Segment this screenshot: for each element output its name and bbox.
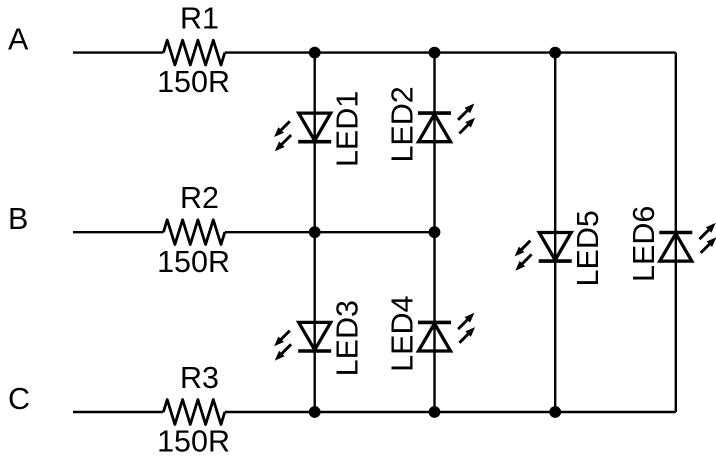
wire net C: R3 to right corner (225, 411, 676, 413)
svg-text:C: C (8, 382, 30, 416)
junction dot B/col2 (429, 226, 441, 238)
wire net A: R1 to right corner (225, 51, 676, 53)
svg-text:LED5: LED5 (571, 210, 605, 286)
LED LED6 symbol (light-emitting diode, pointing up) (659, 223, 716, 261)
svg-text:R2: R2 (180, 181, 219, 215)
svg-text:LED1: LED1 (331, 91, 365, 167)
svg-text:LED3: LED3 (331, 300, 365, 376)
resistor R3 (163, 400, 224, 425)
wire vertical column 3 (LED5) (554, 53, 556, 412)
junction dot C/col2 (429, 406, 441, 418)
svg-text:LED6: LED6 (627, 206, 661, 282)
LED LED5 symbol (light-emitting diode, pointing down) (515, 233, 572, 271)
svg-text:R1: R1 (180, 2, 219, 36)
svg-text:LED4: LED4 (386, 296, 420, 372)
wire net B: R2 to column 2 (225, 231, 435, 233)
wire vertical column 2 (LED2/LED4) (433, 53, 435, 412)
junction dot B/col1 (309, 226, 321, 238)
LED LED3 symbol (light-emitting diode, pointing down) (274, 322, 331, 360)
LED LED4 symbol (light-emitting diode, pointing up) (418, 313, 475, 351)
wire net C: left lead to R3 (73, 411, 163, 413)
LED LED1 symbol (light-emitting diode, pointing down) (274, 113, 331, 151)
junction dot C/col3 (549, 406, 561, 418)
wire vertical column 4 (LED6, right edge) (675, 53, 677, 412)
resistor R1 (163, 40, 224, 65)
wire vertical column 1 (LED1/LED3) (314, 53, 316, 412)
svg-text:A: A (8, 22, 29, 56)
svg-text:R3: R3 (180, 361, 219, 395)
wire net B: left lead to R2 (73, 231, 163, 233)
svg-text:B: B (8, 202, 28, 236)
svg-text:150R: 150R (157, 425, 230, 459)
resistor R2 (163, 220, 224, 245)
svg-text:150R: 150R (157, 245, 230, 279)
junction dot A/col2 (429, 47, 441, 59)
LED LED2 symbol (light-emitting diode, pointing up) (418, 104, 475, 142)
junction dot A/col3 (549, 47, 561, 59)
junction dot C/col1 (309, 406, 321, 418)
svg-text:LED2: LED2 (386, 86, 420, 162)
junction dot A/col1 (309, 47, 321, 59)
svg-text:150R: 150R (157, 65, 230, 99)
wire net A: left lead to R1 (73, 51, 163, 53)
